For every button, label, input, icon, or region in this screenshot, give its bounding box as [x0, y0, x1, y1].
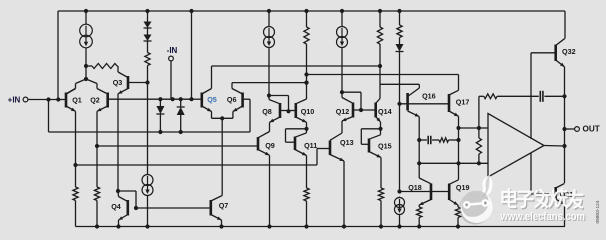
svg-text:Q11: Q11	[304, 141, 317, 150]
svg-text:Q17: Q17	[456, 97, 470, 106]
svg-text:Q10: Q10	[301, 107, 315, 116]
svg-text:Q32: Q32	[562, 47, 576, 56]
svg-text:Q12: Q12	[336, 107, 350, 116]
svg-text:+IN: +IN	[8, 96, 21, 105]
svg-text:Q4: Q4	[111, 202, 121, 211]
svg-text:Q6: Q6	[227, 95, 237, 104]
svg-text:Q18: Q18	[408, 183, 422, 192]
svg-text:Q2: Q2	[90, 96, 100, 105]
svg-text:www.elecfans.com: www.elecfans.com	[500, 211, 586, 223]
svg-text:Q14: Q14	[378, 107, 392, 116]
svg-text:-IN: -IN	[167, 46, 178, 55]
svg-text:09803-124: 09803-124	[595, 200, 601, 223]
svg-text:Q5: Q5	[207, 95, 217, 104]
svg-text:Q15: Q15	[378, 141, 392, 150]
svg-text:Q9: Q9	[265, 141, 275, 150]
svg-text:Q3: Q3	[113, 78, 123, 87]
svg-text:Q19: Q19	[456, 183, 470, 192]
svg-text:Q13: Q13	[340, 138, 354, 147]
svg-text:OUT: OUT	[583, 125, 600, 134]
svg-text:Q1: Q1	[72, 96, 82, 105]
svg-text:Q16: Q16	[422, 92, 436, 101]
svg-text:Q7: Q7	[219, 201, 229, 210]
svg-text:Q8: Q8	[262, 107, 272, 116]
